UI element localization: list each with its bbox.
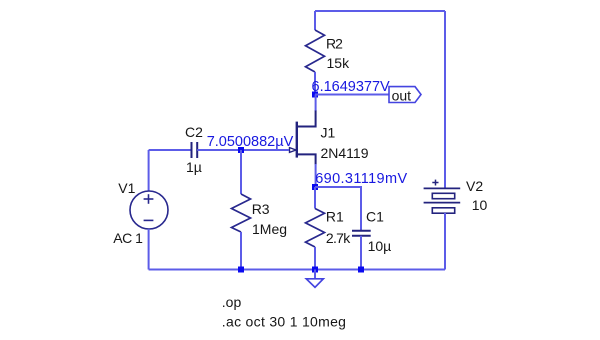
wire V2 bottom lead <box>444 213 446 270</box>
wire R2 top lead <box>314 11 316 30</box>
svg-text:.ac oct 30 1 10meg: .ac oct 30 1 10meg <box>222 314 346 330</box>
svg-text:1Meg: 1Meg <box>252 221 287 237</box>
svg-text:AC 1: AC 1 <box>113 230 143 246</box>
resistor R2 <box>306 30 351 72</box>
wire gate <box>197 149 289 151</box>
wire input left segment <box>149 149 192 151</box>
svg-text:7.0500882µV: 7.0500882µV <box>207 134 294 150</box>
wire bottom rail <box>149 269 445 271</box>
svg-text:R1: R1 <box>326 209 344 225</box>
voltage source V1 <box>113 180 168 246</box>
svg-text:6.1649377V: 6.1649377V <box>312 79 391 95</box>
svg-text:V2: V2 <box>466 178 483 194</box>
ground <box>306 270 323 288</box>
resistor R3 <box>232 194 288 237</box>
wire V2 top lead <box>444 11 446 188</box>
battery V2 <box>424 178 488 213</box>
wire R1 bottom lead <box>314 247 316 270</box>
junction R1 bottom <box>312 267 318 273</box>
svg-text:C1: C1 <box>366 209 384 225</box>
wire C1 bottom lead <box>360 236 362 270</box>
svg-text:J1: J1 <box>321 125 336 141</box>
wire source vertical <box>315 164 317 187</box>
capacitor C2 <box>185 124 203 175</box>
svg-text:2N4119: 2N4119 <box>321 145 369 161</box>
svg-text:10µ: 10µ <box>368 238 392 254</box>
svg-text:690.31119mV: 690.31119mV <box>315 171 407 187</box>
svg-text:15k: 15k <box>327 55 351 71</box>
svg-text:V1: V1 <box>118 180 135 196</box>
svg-text:1µ: 1µ <box>186 159 202 175</box>
transistor J1 2N4119 <box>290 111 369 165</box>
wire R3 bottom lead <box>240 232 242 270</box>
junction gate-R3 node <box>238 147 244 153</box>
junction C1 bottom <box>358 267 364 273</box>
svg-text:R2: R2 <box>326 35 343 51</box>
resistor R1 <box>306 209 352 248</box>
wire out <box>315 94 389 96</box>
junction source node <box>312 184 318 190</box>
svg-text:10: 10 <box>472 197 488 213</box>
flag out <box>389 87 421 104</box>
svg-text:out: out <box>392 87 412 103</box>
junction R3 bottom <box>238 267 244 273</box>
wire V1 bottom lead <box>148 229 150 270</box>
wire top rail <box>315 10 445 12</box>
wire V1 top lead <box>148 150 150 191</box>
svg-text:2.7k: 2.7k <box>326 230 351 246</box>
wire drain vertical <box>315 95 317 112</box>
svg-text:C2: C2 <box>185 124 203 140</box>
svg-text:R3: R3 <box>252 201 270 217</box>
wire source to C1 branch <box>315 187 361 231</box>
junction drain node <box>312 92 318 98</box>
svg-text:.op: .op <box>222 294 242 310</box>
wire R2 bottom lead <box>314 72 316 95</box>
capacitor C1 <box>352 209 391 254</box>
wire source to R1 <box>314 187 316 209</box>
wire R3 top lead <box>240 150 242 194</box>
